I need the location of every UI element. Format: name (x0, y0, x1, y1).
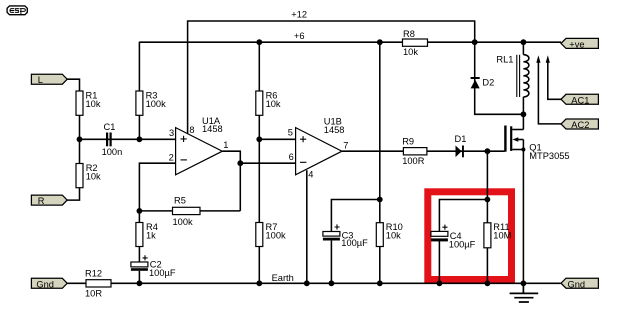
node gnd R7 (256, 280, 262, 286)
svg-text:100µF: 100µF (341, 238, 368, 248)
svg-text:10k: 10k (86, 171, 101, 181)
svg-text:100µF: 100µF (449, 240, 476, 250)
svg-text:R12: R12 (85, 268, 102, 278)
wire Q1 drain (522, 114, 524, 129)
svg-text:RL1: RL1 (496, 55, 513, 65)
capacitor C1 (102, 122, 123, 157)
output label AC1 (561, 94, 598, 105)
svg-text:10k: 10k (403, 47, 418, 57)
wire half-supply column R10 (379, 42, 381, 283)
svg-text:10R: 10R (85, 288, 102, 298)
node pin1/pin6 (237, 160, 243, 166)
wire relay coil top (522, 42, 524, 55)
resistor R9 (402, 137, 427, 166)
wire C4 to ground (438, 241, 440, 284)
resistor R4 (136, 222, 158, 247)
wire Q1 source to ground (522, 140, 524, 284)
input label R (31, 195, 67, 206)
svg-text:AC2: AC2 (571, 120, 589, 130)
svg-text:100k: 100k (173, 217, 194, 227)
node gnd C3 (329, 280, 335, 286)
diode D1 (455, 134, 467, 157)
svg-text:10k: 10k (86, 99, 101, 109)
svg-text:1458: 1458 (202, 124, 223, 134)
wire R11 to ground (486, 248, 488, 283)
capacitor C4 (431, 225, 476, 250)
svg-text:+6: +6 (294, 31, 305, 41)
svg-text:2: 2 (169, 152, 174, 162)
node R4/R5/pin2 (137, 208, 143, 214)
wire D2 column (475, 42, 524, 114)
node R6/R7/pin5 (256, 136, 262, 142)
esp logo (7, 6, 27, 15)
wire C2 to ground (138, 271, 140, 284)
wire L input to R1 (67, 79, 80, 139)
node +6/R10 (377, 39, 383, 45)
wire +12 drop to U1A pin8 (187, 20, 189, 133)
wire relay coil bottom (522, 97, 524, 114)
earth ground symbol (510, 283, 539, 302)
svg-text:C1: C1 (104, 122, 116, 132)
node C1/R3/pin3 (137, 136, 143, 142)
node +12/+ve (472, 39, 478, 45)
relay contact arrow 1 (536, 55, 540, 63)
svg-text:100k: 100k (146, 99, 167, 109)
diode D2 (471, 77, 495, 88)
resistor R10 (376, 222, 403, 247)
op-amp U1A (169, 116, 229, 175)
wire +12 right drop (474, 20, 476, 42)
svg-text:10k: 10k (266, 99, 281, 109)
svg-text:5: 5 (288, 127, 293, 137)
wire relay contact arm 1 to AC2 (538, 62, 561, 124)
svg-text:Earth: Earth (272, 273, 294, 283)
svg-text:D1: D1 (455, 134, 467, 144)
node gnd Q1/earth (521, 280, 527, 286)
op-amp U1B (288, 116, 349, 179)
svg-text:R9: R9 (402, 137, 414, 147)
svg-text:R: R (38, 196, 45, 206)
output label AC2 (561, 119, 598, 130)
node C4/R11 top (485, 197, 491, 203)
svg-text:AC1: AC1 (571, 95, 589, 105)
wire ground rail (67, 282, 561, 284)
resistor R1 (76, 90, 101, 115)
svg-text:L: L (38, 75, 43, 85)
svg-text:MTP3055: MTP3055 (529, 151, 569, 161)
node drain/relay/D2 (521, 111, 527, 117)
node gnd C4 (437, 280, 443, 286)
wire +6 rail to +ve (139, 41, 561, 43)
wire R6 column (258, 42, 260, 139)
resistor R12 (85, 268, 111, 298)
svg-text:R8: R8 (403, 29, 415, 39)
svg-text:100k: 100k (266, 230, 287, 240)
relay contact arrow 2 (546, 55, 550, 63)
wire R4 column to C2 (138, 211, 140, 262)
svg-text:100R: 100R (402, 156, 425, 166)
output label +ve (561, 38, 598, 49)
transistor Q1 MTP3055 (504, 126, 569, 162)
svg-text:8: 8 (189, 125, 194, 135)
wire U1B pin6 row (240, 162, 295, 164)
svg-text:100n: 100n (102, 147, 123, 157)
node D1/gate (485, 148, 491, 154)
svg-text:10M: 10M (493, 231, 511, 241)
resistor R6 (256, 90, 281, 115)
wire +12 rail (188, 20, 475, 22)
node C3/halfsupply (377, 197, 383, 203)
svg-text:D2: D2 (482, 78, 494, 88)
svg-text:1: 1 (223, 140, 228, 150)
input label Gnd left (31, 278, 67, 289)
svg-text:7: 7 (343, 141, 348, 151)
wire D1 junction column to R11 (486, 151, 488, 223)
capacitor C2 (131, 255, 176, 277)
svg-text:1458: 1458 (324, 125, 345, 135)
wire relay contact arm 2 to AC1 (548, 62, 561, 99)
svg-text:1k: 1k (146, 230, 156, 240)
relay RL1 coil (496, 55, 528, 97)
svg-text:6: 6 (289, 152, 294, 162)
wire C3 to ground (330, 241, 332, 284)
resistor R11 (484, 222, 511, 248)
node gnd R10 (377, 280, 383, 286)
node +ve/relay (521, 39, 527, 45)
resistor R3 (136, 90, 166, 115)
input label L (31, 74, 67, 85)
wire R5 row (139, 210, 240, 212)
capacitor C3 (323, 224, 368, 248)
svg-text:100µF: 100µF (149, 268, 176, 278)
resistor R2 (76, 163, 101, 188)
svg-text:3: 3 (169, 128, 174, 138)
wire U1B pin5 (259, 138, 295, 140)
svg-text:+12: +12 (291, 10, 307, 20)
node gnd C2 (137, 280, 143, 286)
wire R3 column (138, 42, 140, 140)
wire U1B pin4 to ground (306, 170, 308, 283)
resistor R5 (173, 196, 201, 228)
highlight box (red) around C4/R11 (428, 192, 512, 280)
wire C4 branch (439, 200, 487, 232)
wire U1A output pin1 (222, 151, 240, 211)
wire U1B output pin7 to gate (342, 150, 505, 152)
node gnd R11 (485, 280, 491, 286)
wire R2 column to R input (67, 139, 80, 200)
svg-text:10k: 10k (386, 231, 401, 241)
wire C3 branch (331, 200, 379, 232)
node R1/C1/R2 (77, 136, 83, 142)
resistor R7 (256, 222, 286, 247)
svg-text:+ve: +ve (569, 40, 584, 50)
svg-text:Gnd: Gnd (36, 279, 54, 289)
wire U1A pin2 (139, 163, 175, 211)
svg-text:4: 4 (308, 169, 313, 179)
output label Gnd right (561, 278, 598, 289)
node +6/R6 (256, 39, 262, 45)
svg-text:Gnd: Gnd (568, 279, 586, 289)
svg-text:R5: R5 (174, 196, 186, 206)
wire R7 column (258, 139, 260, 283)
node gnd pin4 (304, 280, 310, 286)
wire C1 row to U1A pin3 (80, 138, 176, 140)
resistor R8 (403, 29, 428, 57)
